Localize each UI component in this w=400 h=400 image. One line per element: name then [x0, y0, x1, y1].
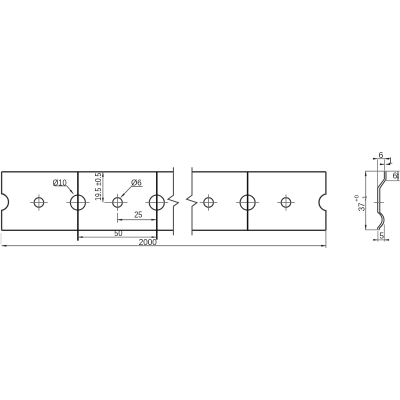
- dim 6 right line: [397, 171, 399, 181]
- hole S4 small: [281, 198, 291, 208]
- dim 25 arrows: [117, 219, 122, 221]
- hole B1 horizontal centerline: [66, 201, 89, 203]
- dim 37 arrows: [365, 171, 367, 176]
- strip bottom edge right segment: [192, 229, 326, 231]
- hole S2 extension to 25-dim: [116, 213, 118, 223]
- hole B2 horizontal centerline: [145, 201, 168, 203]
- dim 37 line: [365, 171, 367, 230]
- dim 50 line: [78, 236, 156, 238]
- leader Ø10: [54, 186, 73, 194]
- hole B1 big: [70, 195, 85, 210]
- dim 50 arrows: [78, 236, 83, 238]
- hole B2 vertical line to dims: [156, 172, 158, 240]
- svg-text:25: 25: [134, 211, 143, 220]
- section centerline tick: [374, 202, 384, 204]
- hole S3 small: [204, 198, 214, 208]
- hole B3 vertical line: [247, 172, 249, 231]
- dim 5 extensions: [378, 225, 384, 242]
- hole S2 crosshair: [105, 194, 128, 211]
- strip top edge right segment: [192, 171, 326, 173]
- hole B2 big: [149, 195, 164, 210]
- strip bottom edge left segment: [2, 229, 174, 231]
- dim 6 top extensions: [378, 160, 385, 189]
- hole S2 small: [113, 198, 123, 208]
- dim 6 right extension bottom: [386, 180, 400, 182]
- section bottom extension line: [365, 229, 380, 231]
- hole B3 big: [240, 195, 255, 210]
- hole S1 crosshair: [30, 194, 48, 210]
- dim 2000 line: [2, 245, 326, 247]
- dim 5 line with outside arrows: [373, 239, 389, 241]
- svg-text:+0: +0: [354, 195, 360, 202]
- dim 2000 right extension: [325, 230, 327, 248]
- hole B1 vertical line to 50-dim: [77, 172, 79, 241]
- dim 2000 left extension: [0, 233, 2, 245]
- svg-text:37: 37: [356, 202, 366, 211]
- dim 1 lines with outside arrows: [380, 163, 390, 165]
- hole S4 crosshair: [277, 194, 295, 210]
- dim 19.5 arrows: [102, 172, 104, 177]
- strip right edge with half-hole notch: [319, 172, 326, 231]
- leader Ø6: [121, 186, 143, 197]
- dim 6 right arrows: [397, 171, 399, 175]
- svg-text:19.5 ±0.5: 19.5 ±0.5: [94, 172, 103, 200]
- section profile inner face: [378, 172, 385, 230]
- svg-text:6: 6: [393, 172, 398, 181]
- leader Ø6 arrowhead: [121, 193, 125, 197]
- hole S3 crosshair: [200, 194, 218, 210]
- hole B3 horizontal centerline: [236, 201, 259, 203]
- strip top edge left segment: [2, 172, 326, 231]
- svg-text:5: 5: [379, 232, 384, 241]
- break line left: [168, 167, 179, 235]
- hole S1 small: [34, 198, 44, 208]
- leader Ø10 arrowhead: [70, 190, 74, 194]
- dim 25 line: [117, 219, 156, 221]
- dim 19.5 line: [102, 172, 104, 203]
- dim 2000 arrows: [2, 245, 7, 247]
- svg-text:1: 1: [388, 156, 393, 165]
- svg-text:-1: -1: [362, 196, 368, 201]
- section top extension line: [365, 170, 399, 172]
- strip left edge with half-hole notch: [2, 172, 9, 231]
- dim 6 top line with outside arrows: [373, 158, 389, 160]
- svg-text:50: 50: [114, 229, 123, 238]
- break line right: [187, 167, 198, 235]
- svg-text:6: 6: [379, 151, 384, 160]
- svg-text:2000: 2000: [139, 237, 157, 247]
- section profile outer face: [379, 172, 386, 230]
